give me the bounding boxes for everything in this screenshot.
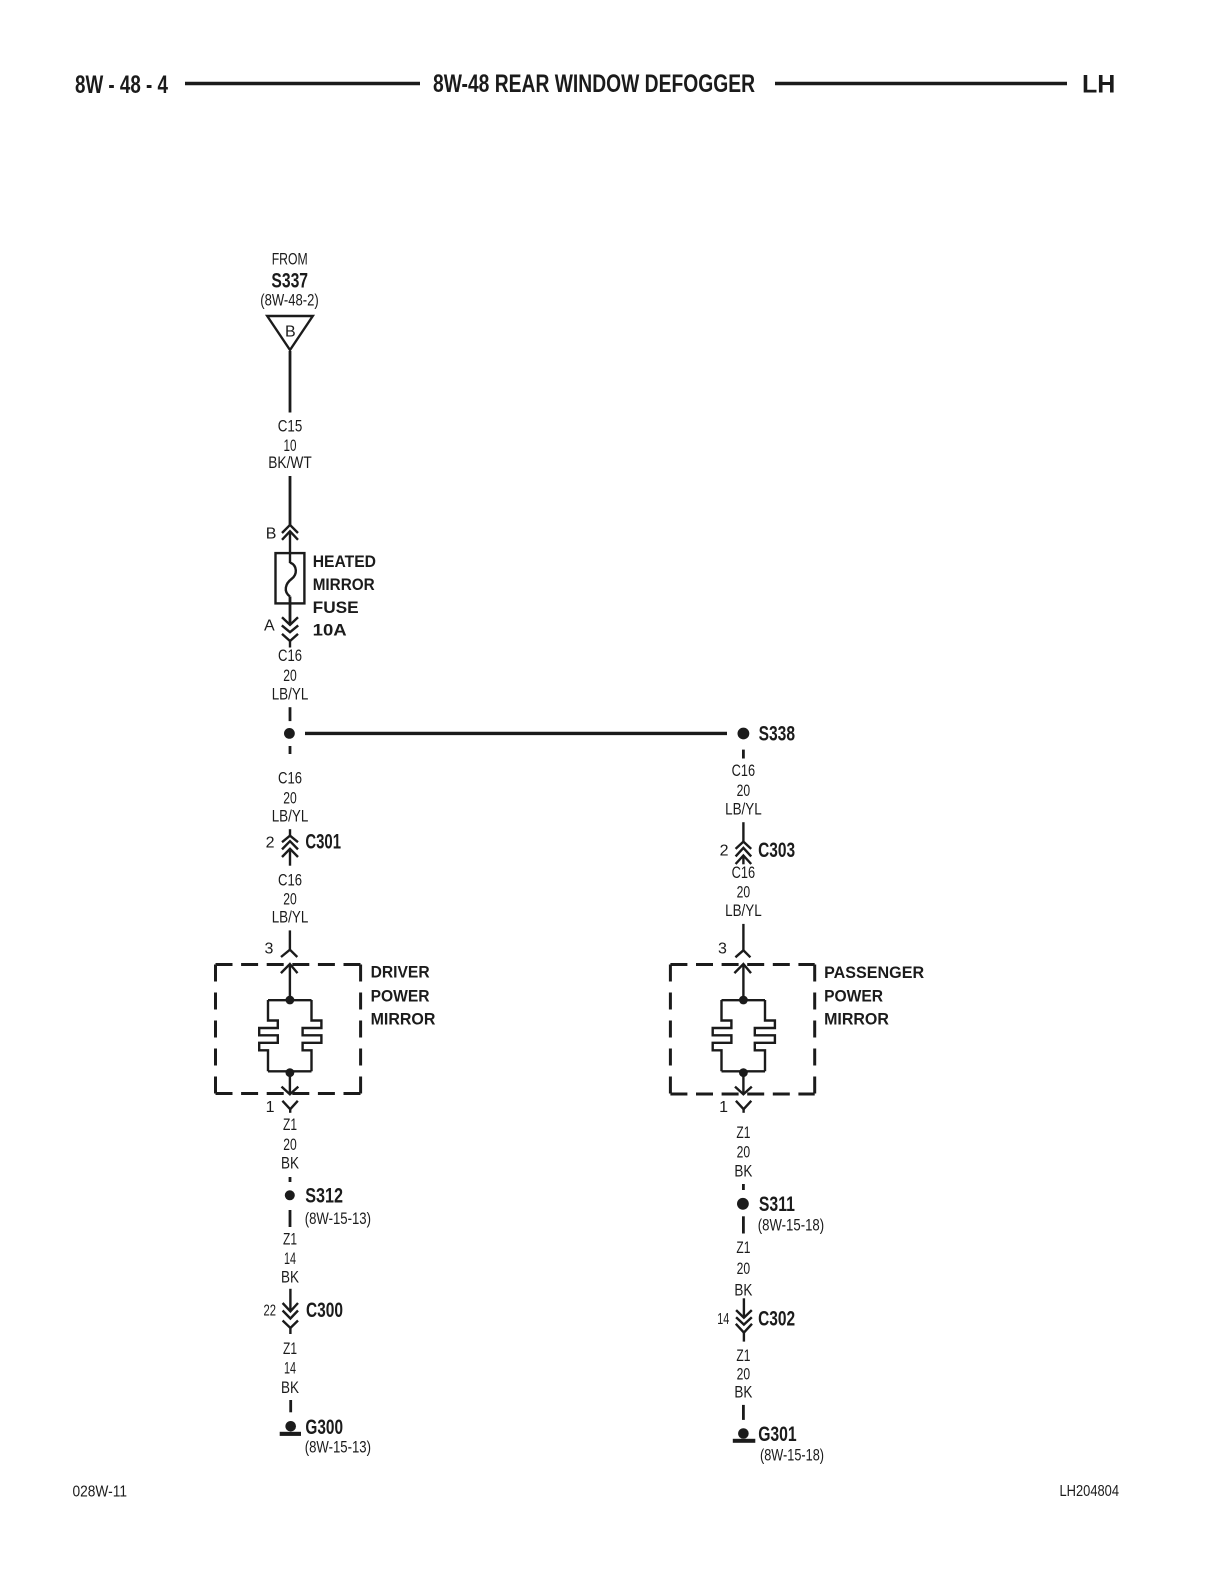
svg-text:20: 20 [737, 882, 751, 901]
svg-text:Z1: Z1 [283, 1339, 297, 1358]
driver power mirror dashed box [216, 965, 361, 1094]
connector C302 symbol [736, 1298, 752, 1341]
heater element top node dot [286, 996, 295, 1005]
svg-text:Z1: Z1 [736, 1346, 750, 1365]
svg-text:B: B [285, 323, 296, 340]
wire from fuse bottom to cavity A [289, 597, 292, 625]
header left rule [185, 82, 420, 85]
svg-text:G301: G301 [758, 1423, 797, 1446]
svg-text:MIRROR: MIRROR [824, 1010, 889, 1029]
svg-text:C300: C300 [306, 1299, 343, 1322]
svg-text:14: 14 [717, 1311, 729, 1328]
svg-text:(8W-15-18): (8W-15-18) [760, 1446, 824, 1465]
wire from label BK/WT to fuse cavity B [289, 476, 292, 525]
svg-text:B: B [266, 526, 277, 543]
svg-text:C16: C16 [278, 769, 302, 788]
component name DRIVER POWER MIRROR [371, 963, 436, 1029]
svg-text:Z1: Z1 [736, 1238, 750, 1257]
svg-text:HEATED: HEATED [313, 552, 376, 571]
heater element bottom bus [722, 1070, 766, 1072]
svg-text:LH: LH [1082, 71, 1115, 99]
wire below splice S312 [289, 1210, 292, 1227]
heater element right meander [755, 1000, 775, 1071]
passenger mirror pin 3 terminal arrow [734, 964, 751, 996]
fuse cavity B connector chevrons [282, 525, 298, 563]
connector C303 symbol [736, 822, 752, 864]
svg-text:2: 2 [720, 843, 729, 860]
wire into driver mirror pin 3 [281, 930, 297, 957]
svg-text:(8W-15-18): (8W-15-18) [758, 1215, 824, 1234]
svg-text:BK: BK [734, 1383, 753, 1402]
svg-text:14: 14 [284, 1249, 296, 1268]
heater element left meander [713, 1000, 732, 1071]
driver mirror pin 1 terminal arrow [282, 1073, 299, 1095]
heater element bottom node dot [739, 1068, 748, 1077]
header right rule [775, 82, 1067, 85]
heated mirror fuse body [276, 553, 305, 603]
svg-text:PASSENGER: PASSENGER [824, 963, 924, 982]
svg-text:LB/YL: LB/YL [272, 684, 309, 703]
svg-text:1: 1 [266, 1099, 275, 1116]
pin 1 connector terminal below box [736, 1101, 751, 1113]
svg-text:3: 3 [264, 940, 273, 957]
wire below splice S311 [742, 1216, 745, 1233]
svg-text:S337: S337 [271, 270, 308, 293]
connector C300 symbol [283, 1289, 298, 1334]
svg-text:20: 20 [737, 1142, 751, 1161]
pin 1 connector terminal below box [282, 1101, 297, 1113]
svg-text:BK: BK [734, 1162, 753, 1181]
splice S311 dot [737, 1198, 749, 1210]
svg-text:MIRROR: MIRROR [313, 575, 375, 594]
splice S312 dot [285, 1190, 295, 1200]
svg-text:1: 1 [719, 1099, 728, 1116]
heater element left meander [259, 1000, 278, 1071]
driver mirror pin 3 terminal arrow [281, 964, 298, 996]
heater element top bus [268, 999, 312, 1001]
svg-text:20: 20 [283, 1135, 297, 1154]
svg-text:S312: S312 [305, 1184, 343, 1207]
svg-text:G300: G300 [305, 1416, 343, 1439]
svg-text:C15: C15 [278, 416, 303, 435]
svg-text:C16: C16 [732, 863, 756, 882]
svg-text:22: 22 [264, 1302, 277, 1319]
svg-text:POWER: POWER [371, 987, 430, 1006]
junction dot at splice [284, 728, 295, 739]
component name PASSENGER POWER MIRROR [824, 963, 924, 1029]
passenger power mirror dashed box [670, 965, 814, 1095]
svg-text:(8W-48-2): (8W-48-2) [260, 291, 319, 310]
ground G300 symbol [280, 1421, 301, 1436]
passenger mirror pin 1 terminal arrow [735, 1073, 752, 1095]
svg-text:C16: C16 [732, 761, 756, 780]
heater element right meander [303, 1000, 322, 1071]
svg-text:BK: BK [734, 1281, 753, 1300]
splice S338 dot [738, 728, 750, 740]
svg-text:14: 14 [284, 1359, 296, 1378]
svg-text:20: 20 [737, 781, 751, 800]
svg-text:20: 20 [283, 890, 297, 909]
svg-text:A: A [264, 618, 275, 635]
svg-text:028W-11: 028W-11 [73, 1484, 128, 1501]
svg-text:Z1: Z1 [283, 1115, 297, 1134]
svg-text:C16: C16 [278, 646, 302, 665]
svg-text:POWER: POWER [824, 987, 883, 1006]
wire into splice junction [289, 707, 292, 721]
svg-text:C302: C302 [758, 1308, 795, 1331]
heater element bottom bus [268, 1070, 312, 1072]
fuse element S-curve [286, 563, 296, 597]
svg-text:(8W-15-13): (8W-15-13) [305, 1209, 371, 1228]
wire into ground G301 [742, 1405, 745, 1420]
svg-text:2: 2 [266, 834, 275, 851]
svg-text:C303: C303 [758, 839, 795, 862]
wire into splice S312 [289, 1177, 292, 1182]
svg-text:20: 20 [737, 1259, 751, 1278]
heater element top node dot [739, 996, 748, 1005]
fuse cavity A connector chevrons and terminal [282, 617, 298, 647]
svg-text:20: 20 [283, 666, 297, 685]
fuse label HEATED MIRROR FUSE 10A [313, 552, 376, 640]
svg-text:BK: BK [281, 1378, 300, 1397]
svg-text:FUSE: FUSE [313, 598, 359, 617]
svg-text:Z1: Z1 [283, 1230, 297, 1249]
svg-text:8W-48 REAR WINDOW DEFOGGER: 8W-48 REAR WINDOW DEFOGGER [433, 70, 755, 98]
wire below splice [289, 746, 292, 754]
svg-text:S311: S311 [759, 1193, 795, 1216]
svg-text:10A: 10A [313, 621, 347, 640]
svg-text:FROM: FROM [272, 250, 308, 269]
wire below splice S338 [742, 750, 745, 759]
svg-text:20: 20 [283, 789, 297, 808]
heater element top bus [722, 999, 766, 1001]
off-page connector triangle from S337 [267, 316, 313, 350]
svg-text:LH204804: LH204804 [1060, 1483, 1120, 1500]
svg-text:(8W-15-13): (8W-15-13) [305, 1438, 371, 1457]
svg-text:BK/WT: BK/WT [268, 453, 311, 472]
svg-text:LB/YL: LB/YL [272, 807, 309, 826]
svg-text:LB/YL: LB/YL [725, 800, 762, 819]
bus wire from splice to S338 [305, 732, 727, 735]
svg-text:C301: C301 [305, 830, 341, 853]
svg-text:C16: C16 [278, 870, 302, 889]
heater element bottom node dot [286, 1068, 295, 1077]
ground G301 symbol [733, 1428, 756, 1443]
svg-text:MIRROR: MIRROR [371, 1010, 436, 1029]
wire into passenger mirror pin 3 [735, 924, 750, 957]
wire into ground G300 [289, 1400, 292, 1412]
svg-text:20: 20 [737, 1365, 751, 1384]
svg-text:BK: BK [281, 1153, 300, 1172]
svg-text:8W - 48 - 4: 8W - 48 - 4 [75, 71, 168, 99]
svg-text:LB/YL: LB/YL [272, 907, 309, 926]
wire from triangle to label C15 [289, 351, 292, 413]
connector C301 symbol [282, 829, 298, 866]
svg-text:3: 3 [718, 940, 727, 957]
svg-text:DRIVER: DRIVER [371, 963, 430, 982]
svg-text:Z1: Z1 [736, 1123, 750, 1142]
svg-text:BK: BK [281, 1268, 300, 1287]
svg-text:S338: S338 [759, 722, 796, 745]
wire into splice S311 [742, 1184, 745, 1190]
svg-text:LB/YL: LB/YL [725, 901, 762, 920]
